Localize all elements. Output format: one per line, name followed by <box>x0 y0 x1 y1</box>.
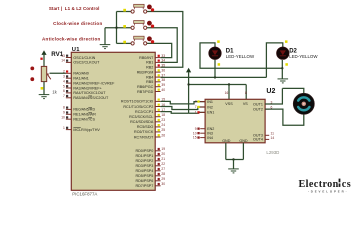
junction bus-row2 junction <box>115 27 117 29</box>
U2 pin 3 OUT1 <box>265 103 269 105</box>
wire U2 gnd right stub <box>242 143 244 160</box>
svg-text:36: 36 <box>161 68 165 72</box>
svg-text:RC2/CCP1: RC2/CCP1 <box>135 110 153 114</box>
U1 pin 17 RC2/CCP1 <box>155 109 160 112</box>
svg-text:13: 13 <box>61 54 65 58</box>
svg-text:RD7/PSP7: RD7/PSP7 <box>135 184 153 188</box>
svg-text:4: 4 <box>63 79 65 83</box>
U1 pin 24 RC5/SDO <box>155 124 160 127</box>
U1 pin 30 RD7/PSP7 <box>155 183 160 186</box>
svg-text:PIC16F877A: PIC16F877A <box>72 191 97 196</box>
U1 pin 23 RC4/SDI/SDA <box>155 119 160 122</box>
U1 pin 38 RB5 <box>155 79 160 82</box>
junction LED ground junction <box>281 67 283 69</box>
svg-text:IN3: IN3 <box>207 132 213 136</box>
U2 pin 10 IN3 <box>197 132 205 134</box>
motor <box>293 93 314 114</box>
svg-text:RB0/INT: RB0/INT <box>139 56 154 60</box>
svg-text:8: 8 <box>63 106 65 110</box>
svg-text:Anticlock-wise direction: Anticlock-wise direction <box>42 36 100 41</box>
svg-text:RD4/PSP4: RD4/PSP4 <box>135 169 153 173</box>
U1 pin 7 RA5/AN4/SS/C2OUT <box>66 95 71 98</box>
svg-text:2: 2 <box>195 100 197 104</box>
svg-text:6: 6 <box>63 89 65 93</box>
U1 pin 22 RD3/PSP3 <box>155 163 160 166</box>
mcu U1 body <box>71 52 155 190</box>
wire U2 vcc vertical <box>188 72 190 113</box>
svg-text:GND: GND <box>239 139 248 143</box>
svg-text:MCLR/Vpp/THV: MCLR/Vpp/THV <box>73 128 100 132</box>
svg-text:Electron: Electron <box>299 179 339 190</box>
wire RV1 wiper to RA0 <box>50 72 66 74</box>
U2 pin 14 OUT4 <box>265 138 269 140</box>
svg-text:23: 23 <box>161 118 165 122</box>
svg-text:U1: U1 <box>72 47 80 53</box>
wire RV1 bottom wire <box>43 82 45 95</box>
U1 pin 18 RC3/SCK/SCL <box>155 114 160 117</box>
svg-text:35: 35 <box>161 64 165 68</box>
U2 pin 7 IN2 <box>197 106 205 108</box>
U1 pin 3 RA1/AN1 <box>66 75 71 78</box>
U1 pin 35 RB2 <box>155 64 160 67</box>
svg-text:EN1: EN1 <box>207 111 214 115</box>
svg-text:40: 40 <box>161 88 165 92</box>
U2 pin 15 IN4 <box>197 136 205 138</box>
wire U2 gnd link <box>226 159 244 161</box>
junction vcc rail junction <box>187 83 189 85</box>
svg-text:7: 7 <box>63 94 65 98</box>
svg-text:RB1: RB1 <box>146 61 153 65</box>
svg-text:RA1/AN1: RA1/AN1 <box>73 77 88 81</box>
svg-text:19: 19 <box>161 147 165 151</box>
svg-text:10: 10 <box>61 116 65 120</box>
wire EN1 feed <box>189 111 206 114</box>
wire button1 left <box>117 11 131 13</box>
wire button3 left <box>117 42 131 44</box>
svg-text:16: 16 <box>225 91 229 95</box>
U2 pin 1 EN1 <box>197 111 205 113</box>
U1 pin 40 RB7/PGD <box>155 89 160 92</box>
U1 pin 28 RD5/PSP5 <box>155 173 160 176</box>
svg-text:Clock-wise direction: Clock-wise direction <box>53 21 102 26</box>
wire OUT2 to motor bottom <box>265 109 304 125</box>
svg-text:OSC2/CLKOUT: OSC2/CLKOUT <box>73 61 100 65</box>
svg-text:20: 20 <box>161 152 165 156</box>
wire D1 bottom wire <box>214 59 216 77</box>
wire VSS/VS rail <box>189 84 247 86</box>
svg-text:RA2/AN2/VREF-/CVREF: RA2/AN2/VREF-/CVREF <box>73 81 115 85</box>
junction D1 bottom junction <box>214 76 216 78</box>
ground U2 ground <box>228 169 239 173</box>
driver U2 body <box>205 99 265 143</box>
potentiometer RV1 <box>40 58 50 90</box>
U1 pin 2 RA0/AN0 <box>66 70 71 73</box>
svg-text:- D E V E L O P E R -: - D E V E L O P E R - <box>308 190 347 194</box>
svg-text:RB7/PGD: RB7/PGD <box>137 90 154 94</box>
wire U2 gnd stem <box>233 160 235 169</box>
svg-text:RB4: RB4 <box>146 75 153 79</box>
svg-text:RC5/SDO: RC5/SDO <box>137 125 154 129</box>
U1 pin 34 RB1 <box>155 60 160 63</box>
svg-text:VS: VS <box>243 102 248 106</box>
U1 pin 9 RE1/AN6/WR <box>66 111 71 114</box>
U2 pin 6 OUT2 <box>265 108 269 110</box>
wire bus to ground <box>104 28 106 45</box>
U1 pin 37 RB4 <box>155 74 160 77</box>
svg-text:22: 22 <box>161 162 165 166</box>
wire button1 to RB2 <box>147 12 183 68</box>
U1 pin 39 RB6/PGC <box>155 84 160 87</box>
U1 pin 36 RB3/PGM <box>155 69 160 72</box>
svg-text:IN2: IN2 <box>207 105 213 109</box>
svg-text:RC1/T1OSI/CCP2: RC1/T1OSI/CCP2 <box>123 105 153 109</box>
svg-text:RA3/AN3/VREF+: RA3/AN3/VREF+ <box>73 86 101 90</box>
wire OUT1 to motor top <box>265 88 282 104</box>
svg-text:18: 18 <box>161 113 165 117</box>
wire U2 gnd left stub <box>225 143 227 160</box>
svg-text:5: 5 <box>63 84 65 88</box>
svg-text:RA4/T0CKI/C1OUT: RA4/T0CKI/C1OUT <box>73 91 106 95</box>
wire button3 to RB0 <box>147 43 172 57</box>
svg-text:RB3/PGM: RB3/PGM <box>137 70 154 74</box>
svg-text:10: 10 <box>193 131 197 135</box>
svg-text:29: 29 <box>161 177 165 181</box>
svg-text:cs: cs <box>342 179 351 190</box>
U1 pin 21 RD2/PSP2 <box>155 158 160 161</box>
junction VSS junction <box>228 83 230 85</box>
U1 pin 15 RC0/T1OSO/T1CKI <box>155 99 160 102</box>
wire motor top link <box>282 88 303 93</box>
U1 pin 19 RD0/PSP0 <box>155 148 160 151</box>
svg-text:9: 9 <box>63 111 65 115</box>
wire VSS drop <box>228 85 230 100</box>
RV1 actuator arrows <box>30 67 34 71</box>
pushbutton BTN2 <box>123 21 154 30</box>
U1 pin 27 RD4/PSP4 <box>155 168 160 171</box>
svg-text:27: 27 <box>161 167 165 171</box>
svg-text:LED-YELLOW: LED-YELLOW <box>289 54 318 59</box>
svg-text:3: 3 <box>63 75 65 79</box>
U2 pin 11 OUT3 <box>265 134 269 136</box>
svg-text:RD0/PSP0: RD0/PSP0 <box>135 149 153 153</box>
svg-text:RC7/RX/DT: RC7/RX/DT <box>134 135 154 139</box>
svg-text:26: 26 <box>161 133 165 137</box>
ground buttons ground <box>100 45 111 49</box>
svg-text:7: 7 <box>195 105 197 109</box>
U1 pin 5 RA3/AN3/VREF+ <box>66 85 71 88</box>
svg-text:9: 9 <box>195 127 197 131</box>
svg-text:OUT2: OUT2 <box>253 107 263 111</box>
svg-text:28: 28 <box>161 172 165 176</box>
svg-text:14: 14 <box>271 136 275 140</box>
led D2 LED-YELLOW <box>277 40 290 65</box>
svg-text:30: 30 <box>161 182 165 186</box>
svg-text:RA0/AN0: RA0/AN0 <box>73 72 88 76</box>
svg-text:34: 34 <box>161 59 165 63</box>
svg-text:RE2/AN7/CS: RE2/AN7/CS <box>73 118 95 122</box>
svg-text:OUT1: OUT1 <box>253 102 263 106</box>
svg-text:39: 39 <box>161 83 165 87</box>
wire button common bus vertical <box>116 12 118 44</box>
svg-text:IN4: IN4 <box>207 136 213 140</box>
svg-text:LED-YELLOW: LED-YELLOW <box>226 54 255 59</box>
svg-text:21: 21 <box>161 157 165 161</box>
ground RV1 ground <box>39 95 50 99</box>
svg-text:RC3/SCK/SCL: RC3/SCK/SCL <box>129 115 153 119</box>
junction U2 gnd junction <box>232 158 234 160</box>
U1 pin 6 RA4/T0CKI/C1OUT <box>66 90 71 93</box>
U1 pin 29 RD6/PSP6 <box>155 178 160 181</box>
pushbutton BTN3 <box>123 36 154 45</box>
led D1 LED-YELLOW <box>209 40 222 65</box>
pushbutton BTN1 <box>123 4 154 13</box>
svg-text:OSC1/CLKIN: OSC1/CLKIN <box>73 56 95 60</box>
svg-text:1: 1 <box>195 111 197 115</box>
U1 pin 20 RD1/PSP1 <box>155 153 160 156</box>
svg-text:25: 25 <box>161 128 165 132</box>
U1 pin 33 RB0/INT <box>155 55 160 58</box>
svg-text:RC0/T1OSO/T1CKI: RC0/T1OSO/T1CKI <box>121 100 153 104</box>
wire LED ground stem <box>281 68 283 79</box>
U2 pin 2 IN1 <box>197 100 205 102</box>
svg-text:RC6/TX/CK: RC6/TX/CK <box>134 130 154 134</box>
U1 pin 10 RE2/AN7/CS <box>66 116 71 119</box>
svg-text:EN2: EN2 <box>207 127 214 131</box>
U1 pin 14 OSC2/CLKOUT <box>66 60 71 63</box>
svg-text:38: 38 <box>161 78 165 82</box>
wire RB4 to LED net <box>161 76 267 78</box>
U1 pin 1 MCLR/Vpp/THV <box>66 127 71 130</box>
U1 pin 8 RE0/AN5/RD <box>66 107 71 110</box>
U1 pin 4 RA2/AN2/VREF-/CVREF <box>66 80 71 83</box>
wire D2 top wire <box>266 43 282 78</box>
svg-text:L293D: L293D <box>266 150 279 155</box>
svg-text:RB6/PGC: RB6/PGC <box>137 85 154 89</box>
U1 pin 25 RC6/TX/CK <box>155 129 160 132</box>
wire D1 top wire <box>200 43 282 68</box>
svg-text:RD6/PSP6: RD6/PSP6 <box>135 179 153 183</box>
svg-text:RB5: RB5 <box>146 80 153 84</box>
svg-text:33: 33 <box>161 54 165 58</box>
U1 pin 26 RC7/RX/DT <box>155 134 160 137</box>
svg-text:OUT4: OUT4 <box>253 138 263 142</box>
wire VS drop <box>245 85 247 100</box>
U1 pin 13 OSC1/CLKIN <box>66 55 71 58</box>
svg-text:1: 1 <box>63 126 65 130</box>
svg-text:IN1: IN1 <box>207 100 213 104</box>
svg-text:RC4/SDI/SDA: RC4/SDI/SDA <box>130 120 154 124</box>
wire RC1 to IN2 <box>161 107 206 110</box>
wire button2 left <box>105 27 131 29</box>
wire RV1 top wire <box>43 55 45 67</box>
svg-text:15: 15 <box>193 136 197 140</box>
wire button2 to RB1 <box>147 28 177 63</box>
wire RC0 to IN1 <box>161 101 206 104</box>
power terminal RV1 vcc <box>41 50 46 55</box>
svg-text:RA5/AN4/SS/C2OUT: RA5/AN4/SS/C2OUT <box>73 96 109 100</box>
svg-text:VSS: VSS <box>225 102 233 106</box>
svg-text:RD5/PSP5: RD5/PSP5 <box>135 174 153 178</box>
svg-text:14: 14 <box>61 59 65 63</box>
wire D2 bottom wire <box>281 60 283 68</box>
svg-text:8: 8 <box>245 91 247 95</box>
ground LED ground <box>278 79 289 83</box>
svg-text:RD1/PSP1: RD1/PSP1 <box>135 154 153 158</box>
svg-text:RD3/PSP3: RD3/PSP3 <box>135 164 153 168</box>
svg-text:2: 2 <box>63 70 65 74</box>
power terminal U2 vcc <box>186 68 191 73</box>
svg-text:RB2: RB2 <box>146 66 153 70</box>
svg-text:RE0/AN5/RD: RE0/AN5/RD <box>73 108 95 112</box>
svg-text:RD2/PSP2: RD2/PSP2 <box>135 159 153 163</box>
svg-text:24: 24 <box>161 123 165 127</box>
svg-text:U2: U2 <box>266 88 275 95</box>
svg-text:Start | L1 & L2 Control: Start | L1 & L2 Control <box>49 6 100 11</box>
wire RC2 to EN1 rail <box>161 112 189 114</box>
U1 pin 16 RC1/T1OSI/CCP2 <box>155 104 160 107</box>
U2 pin 9 EN2 <box>197 128 205 130</box>
svg-text:GND: GND <box>222 139 231 143</box>
svg-text:RE1/AN6/WR: RE1/AN6/WR <box>73 113 96 117</box>
